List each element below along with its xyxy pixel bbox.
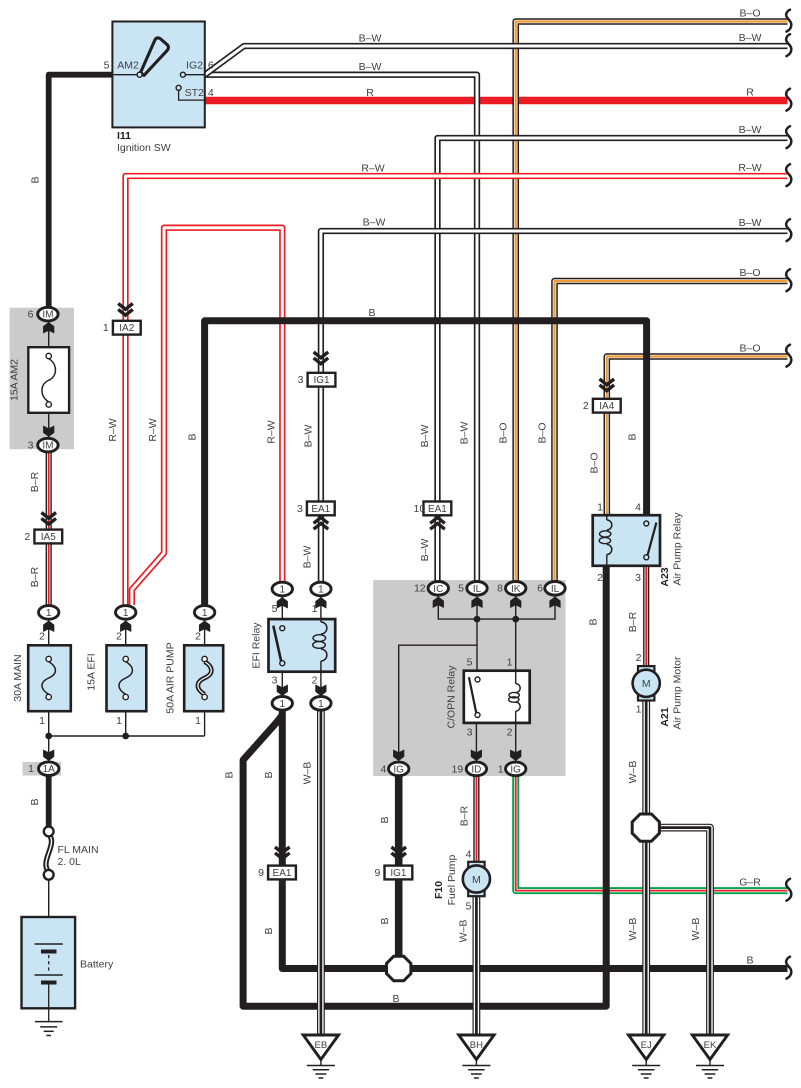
wire B-W from IG2 lower, corner down to 5 IL <box>205 75 477 583</box>
svg-text:Air Pump Motor: Air Pump Motor <box>672 656 684 729</box>
arrow into 19 ID <box>471 750 482 762</box>
wire thin fuse bus <box>48 619 50 646</box>
svg-text:F10: F10 <box>433 881 445 899</box>
fuse 15A AM2 <box>9 347 70 413</box>
ground battery <box>35 1008 63 1035</box>
svg-text:B–O: B–O <box>589 452 601 473</box>
svg-text:B–O: B–O <box>739 7 760 19</box>
wire thin fuse3 top <box>204 619 206 646</box>
svg-text:IG1: IG1 <box>390 868 407 879</box>
connector 3 IG1 <box>298 373 336 387</box>
wire continuation mark y=176 <box>786 164 791 186</box>
wire thin C/OPN pin5 feed <box>476 619 478 671</box>
arrow double into 10 EA1 <box>430 518 445 524</box>
arrow into 8 IK <box>510 597 521 609</box>
svg-text:G–R: G–R <box>739 876 761 888</box>
svg-text:IL: IL <box>551 584 560 595</box>
svg-text:BH: BH <box>470 1040 483 1051</box>
arrow into 5 IL <box>471 597 482 609</box>
wire W-B from junction to EJ ground <box>642 841 650 1035</box>
svg-text:1: 1 <box>39 715 45 727</box>
connector 9 EA1 <box>258 866 296 880</box>
svg-text:2: 2 <box>39 631 45 643</box>
svg-text:B–W: B–W <box>359 33 382 45</box>
svg-text:EB: EB <box>315 1040 328 1051</box>
wire B thick from 1A to fusible link <box>46 775 52 827</box>
wire thin fuse3 bottom <box>204 711 206 736</box>
svg-text:EA1: EA1 <box>428 504 447 515</box>
wire B from ignition AM2 down to 6 IM <box>49 75 113 308</box>
wire W-B from air pump motor to junction <box>642 700 650 814</box>
arrow into fuse 50A AIR PUMP <box>199 621 210 633</box>
wire thin ECM IL lane <box>476 596 478 619</box>
svg-text:B–W: B–W <box>459 422 471 445</box>
svg-text:B–W: B–W <box>739 217 762 229</box>
svg-text:IK: IK <box>511 584 521 595</box>
svg-text:1: 1 <box>123 608 129 619</box>
svg-text:IL: IL <box>473 584 482 595</box>
arrow into 4 IG <box>393 750 404 762</box>
svg-text:ID: ID <box>471 764 481 775</box>
svg-text:10: 10 <box>414 503 426 515</box>
arrow into 3 IM <box>43 426 54 438</box>
wire thin fuse bottoms to bus <box>48 711 50 762</box>
node 19 ID <box>452 762 487 776</box>
svg-text:4: 4 <box>466 849 472 861</box>
svg-text:2: 2 <box>24 531 30 543</box>
arrow double into 3 EA1 <box>314 518 329 524</box>
junction dot fuse bus 1 <box>45 733 52 740</box>
svg-text:12: 12 <box>414 583 426 595</box>
node 4 IG <box>380 762 408 776</box>
svg-text:R–W: R–W <box>147 418 159 441</box>
arrow double into IA2 <box>118 304 133 310</box>
junction dot fuse bus 2 <box>122 733 129 740</box>
svg-text:2: 2 <box>583 400 589 412</box>
svg-text:IG1: IG1 <box>313 375 330 386</box>
svg-text:1: 1 <box>636 704 642 716</box>
svg-text:4: 4 <box>208 87 214 99</box>
svg-text:1: 1 <box>597 502 603 514</box>
fuse 50A AIR PUMP <box>165 642 224 713</box>
wire thin ECM IK lane <box>515 596 517 619</box>
svg-text:5: 5 <box>272 603 278 615</box>
svg-text:2. 0L: 2. 0L <box>58 856 82 868</box>
wire continuation mark y=231 <box>786 219 791 241</box>
svg-text:Ignition SW: Ignition SW <box>117 142 171 154</box>
svg-text:EFI Relay: EFI Relay <box>251 622 263 669</box>
wire B-W right edge row y138 to 10 EA1 / 12 IC <box>438 138 788 583</box>
svg-text:B–R: B–R <box>627 611 639 632</box>
svg-text:4: 4 <box>635 502 641 514</box>
svg-text:B: B <box>627 433 639 440</box>
node EFI relay pin5 feed <box>272 582 292 596</box>
svg-text:B–R: B–R <box>459 805 471 826</box>
svg-text:6: 6 <box>28 309 34 321</box>
wire B thick branch diagonal to bottom bus and air pump relay pin2 <box>243 566 606 1006</box>
svg-text:1: 1 <box>318 585 324 596</box>
node 3 IM <box>28 438 59 452</box>
wire thin fuse2 bottom <box>125 711 127 736</box>
svg-text:B: B <box>379 917 391 924</box>
svg-text:3: 3 <box>298 374 304 386</box>
svg-text:IG: IG <box>393 764 404 775</box>
node 8 IK <box>497 582 526 596</box>
relay C/OPN Relay <box>446 657 530 739</box>
svg-text:1: 1 <box>280 699 286 710</box>
svg-text:R–W: R–W <box>738 162 761 174</box>
node fuse2 top <box>116 606 136 620</box>
svg-text:2: 2 <box>116 631 122 643</box>
svg-text:IM: IM <box>42 310 53 321</box>
svg-text:B–R: B–R <box>29 471 41 492</box>
wire continuation mark y=968.5 <box>786 957 791 979</box>
svg-text:B–W: B–W <box>739 124 762 136</box>
node EFI relay pin1 feed <box>311 582 331 596</box>
fuse 30A MAIN <box>12 645 71 711</box>
motor air pump motor A21 <box>633 666 660 700</box>
wire thin fusible link to battery <box>48 879 50 917</box>
ignition contact IG2 <box>180 72 185 77</box>
arrow double into 9 IG1 <box>391 847 406 853</box>
svg-text:B: B <box>392 993 399 1005</box>
svg-text:B–W: B–W <box>302 546 314 569</box>
svg-text:3: 3 <box>635 572 641 584</box>
svg-text:2: 2 <box>507 727 513 739</box>
svg-text:Air Pump Relay: Air Pump Relay <box>672 512 684 586</box>
svg-text:4: 4 <box>380 763 386 775</box>
svg-text:IG2: IG2 <box>186 59 203 71</box>
ignition key lever <box>141 38 169 76</box>
svg-text:A23: A23 <box>659 567 671 586</box>
svg-text:3: 3 <box>28 440 34 452</box>
svg-text:15A EFI: 15A EFI <box>86 653 98 690</box>
arrow out EFI pin2 <box>315 685 326 697</box>
svg-text:B: B <box>746 954 753 966</box>
svg-text:IM: IM <box>42 441 53 452</box>
svg-text:1: 1 <box>202 608 208 619</box>
connector 9 IG1 <box>374 866 412 880</box>
ground EB <box>303 1035 338 1078</box>
svg-text:EJ: EJ <box>641 1040 652 1051</box>
arrow into EFI oval pin1 <box>315 597 326 609</box>
svg-text:B–O: B–O <box>739 267 760 279</box>
arrow double into IA5 <box>41 513 56 519</box>
connector 3 EA1 <box>297 502 335 516</box>
svg-text:9: 9 <box>258 867 264 879</box>
wire continuation mark y=138 <box>786 126 791 148</box>
wire thin EFI relay pin2 to oval <box>320 672 322 697</box>
svg-text:B: B <box>263 771 275 778</box>
wire thin 6 IM to fuse AM2 <box>48 320 50 347</box>
wire B-R from 19 ID to fuel pump <box>473 775 479 862</box>
svg-text:2: 2 <box>636 652 642 664</box>
svg-text:R–W: R–W <box>107 418 119 441</box>
battery <box>22 917 115 1008</box>
wire B-R air pump relay pin3 to motor <box>643 566 649 667</box>
ground EK <box>692 1035 727 1078</box>
svg-text:5: 5 <box>458 583 464 595</box>
wire R-W loop to IA2 and right edge <box>126 176 788 606</box>
svg-text:1: 1 <box>498 763 504 775</box>
svg-text:B–O: B–O <box>739 342 760 354</box>
wire thin C/OPN pin1 feed <box>515 619 517 671</box>
svg-text:6: 6 <box>208 59 214 71</box>
svg-text:B–O: B–O <box>537 422 549 443</box>
svg-text:C/OPN Relay: C/OPN Relay <box>446 665 458 729</box>
wire R-W inner loop to EFI relay <box>132 228 282 605</box>
wire thin EFI relay oval to pin1 <box>320 595 322 619</box>
svg-text:B: B <box>224 771 236 778</box>
wire G-R from 1 IG to right edge <box>516 775 788 891</box>
ignition contact AM2 <box>137 72 142 77</box>
svg-text:B–W: B–W <box>419 539 431 562</box>
arrow out EFI pin3 <box>277 685 288 697</box>
svg-text:EK: EK <box>704 1040 717 1051</box>
svg-text:50A AIR PUMP: 50A AIR PUMP <box>165 642 177 713</box>
svg-text:3: 3 <box>297 503 303 515</box>
wire B-O row y281 to 6 IL <box>555 281 788 583</box>
wire continuation mark y=890.6 <box>786 879 791 901</box>
svg-text:R–W: R–W <box>266 420 278 443</box>
arrow double into 2 IA4 <box>600 379 615 385</box>
wire B thick EFI relay pin3 to EA1 and bus right <box>282 710 787 969</box>
svg-text:Battery: Battery <box>80 959 114 971</box>
svg-text:15A AM2: 15A AM2 <box>9 359 21 401</box>
svg-text:B–O: B–O <box>498 422 510 443</box>
node EFI relay pin3 out <box>272 697 292 711</box>
wire continuation mark y=21.5 <box>786 10 791 32</box>
wire thin C/OPN pin3 to 19 ID <box>475 723 477 762</box>
svg-text:2: 2 <box>312 675 318 687</box>
svg-text:5: 5 <box>467 657 473 669</box>
wire thin C/OPN pin2 to 1 IG <box>515 723 517 762</box>
svg-text:W–B: W–B <box>690 918 702 941</box>
svg-text:EA1: EA1 <box>273 868 292 879</box>
wire R from ST2 to right edge <box>205 97 788 105</box>
wire thin battery internal <box>48 917 50 944</box>
junction dot ECM 5 IL <box>474 616 481 623</box>
node 1 IG <box>498 762 526 776</box>
node 1 1A <box>28 762 59 776</box>
ECM block background <box>373 580 565 776</box>
node fuse3 top <box>194 606 214 620</box>
relay A23 Air Pump Relay <box>593 502 684 587</box>
svg-text:IG: IG <box>510 764 521 775</box>
svg-text:2: 2 <box>195 631 201 643</box>
svg-text:M: M <box>642 678 651 690</box>
wire B thick bus from fuse 50A to air pump relay pin4 <box>205 321 647 612</box>
svg-text:W–B: W–B <box>627 918 639 941</box>
svg-text:B: B <box>263 927 275 934</box>
wire continuation mark y=356.5 <box>786 345 791 367</box>
motor fuel pump F10 <box>463 862 490 896</box>
wire thin ECM branch to 4 IG <box>399 645 477 762</box>
wire W-B from junction to EK ground <box>659 828 710 1035</box>
node 6 IL <box>537 582 565 596</box>
svg-text:B: B <box>368 307 375 319</box>
wire continuation mark y=281 <box>786 269 791 291</box>
svg-text:I11: I11 <box>117 130 131 142</box>
junction dot ECM 8 IK <box>512 616 519 623</box>
fuse block 15A AM2 background <box>10 308 74 450</box>
svg-text:ST2: ST2 <box>185 87 204 99</box>
wire B-W from IG2 upper to right edge <box>205 46 788 75</box>
connector 1 IA2 <box>103 321 141 335</box>
svg-text:W–B: W–B <box>458 920 470 943</box>
svg-text:8: 8 <box>497 583 503 595</box>
node EFI relay pin2 out <box>311 697 331 711</box>
svg-text:1: 1 <box>318 699 324 710</box>
wire thin EFI relay pin3 to oval <box>281 672 283 697</box>
svg-text:IA2: IA2 <box>119 323 134 334</box>
arrow into 1A <box>43 750 54 762</box>
connector 1A highlight band <box>23 762 62 776</box>
ignition contact ST2 <box>176 85 181 90</box>
arrow into fuse 30A MAIN <box>43 621 54 633</box>
wire W-B from EFI relay pin2 to EB ground <box>317 710 325 1036</box>
svg-text:B: B <box>379 816 391 823</box>
node 5 IL <box>458 582 487 596</box>
arrow into EFI oval pin5 <box>277 597 288 609</box>
svg-text:6: 6 <box>537 583 543 595</box>
ignition switch I11 <box>104 22 214 155</box>
fusible link FL MAIN 2.0L <box>44 827 99 880</box>
svg-text:AM2: AM2 <box>117 59 139 71</box>
arrow into 6 IL <box>549 597 560 609</box>
svg-text:B–W: B–W <box>739 32 762 44</box>
node fuse1 top <box>39 606 59 620</box>
svg-text:IC: IC <box>433 584 443 595</box>
svg-text:1: 1 <box>312 603 318 615</box>
svg-text:B: B <box>588 618 600 625</box>
wire W-B from fuel pump to BH ground <box>472 896 480 1035</box>
svg-text:19: 19 <box>452 763 464 775</box>
connector 10 EA1 <box>414 502 452 516</box>
arrow double into 3 IG1 <box>314 352 329 358</box>
svg-text:1: 1 <box>103 322 109 334</box>
wire thin fuse output bus <box>49 735 205 737</box>
svg-text:3: 3 <box>272 675 278 687</box>
connector 2 IA4 <box>583 399 621 413</box>
ground EJ <box>629 1035 664 1078</box>
svg-text:R: R <box>366 87 374 99</box>
svg-text:1: 1 <box>116 715 122 727</box>
wire thin ECM connector line <box>438 596 555 619</box>
junction node air pump motor ground <box>632 814 659 841</box>
svg-text:FL MAIN: FL MAIN <box>58 844 99 856</box>
svg-text:B–W: B–W <box>359 61 382 73</box>
relay EFI Relay <box>251 603 336 687</box>
svg-text:M: M <box>472 874 481 886</box>
svg-text:R: R <box>746 86 754 98</box>
wire B-O top row to 8 IK <box>516 22 788 583</box>
svg-text:W–B: W–B <box>302 762 314 785</box>
wire thin fuse2 top <box>125 619 127 646</box>
wire thin EFI relay oval to pin5 <box>281 595 283 619</box>
svg-text:1: 1 <box>280 585 286 596</box>
connector 2 IA5 <box>24 530 62 544</box>
svg-text:B: B <box>187 433 199 440</box>
svg-text:B: B <box>30 176 42 183</box>
svg-text:9: 9 <box>374 867 380 879</box>
svg-text:1: 1 <box>28 763 34 775</box>
wire continuation mark y=100.5 <box>786 89 791 111</box>
svg-text:B–W: B–W <box>363 217 386 229</box>
arrow into fuse AM2 <box>43 322 54 334</box>
node 6 IM <box>28 307 59 321</box>
wire continuation mark y=46 <box>786 34 791 56</box>
svg-text:2: 2 <box>597 572 603 584</box>
node 12 IC <box>414 582 449 596</box>
svg-text:R–W: R–W <box>361 163 384 175</box>
junction node fuel/battery ground bus <box>387 956 411 980</box>
ground BH <box>459 1035 494 1078</box>
svg-text:1A: 1A <box>43 764 56 775</box>
arrow into 12 IC <box>433 597 444 609</box>
svg-text:IA5: IA5 <box>41 532 56 543</box>
svg-text:1: 1 <box>507 657 513 669</box>
svg-text:B–R: B–R <box>29 566 41 587</box>
svg-text:B–W: B–W <box>419 425 431 448</box>
wire B thick from 4 IG through IG1 to junction <box>395 775 403 961</box>
wire B-O branch to IA4 and air pump relay pin1 <box>607 357 788 516</box>
fuse 15A EFI <box>86 645 147 711</box>
svg-text:EA1: EA1 <box>311 504 330 515</box>
svg-text:B–W: B–W <box>303 425 315 448</box>
svg-text:IA4: IA4 <box>599 401 614 412</box>
svg-text:5: 5 <box>104 59 110 71</box>
arrow into 1 IG <box>510 750 521 762</box>
svg-text:W–B: W–B <box>627 761 639 784</box>
svg-text:3: 3 <box>467 727 473 739</box>
wire B-W loop to IG1/EA1/EFI relay and right edge <box>321 231 788 583</box>
arrow double into 9 EA1 <box>275 847 290 853</box>
svg-text:1: 1 <box>195 715 201 727</box>
wire B-R from 3 IM to fuse oval <box>46 452 52 606</box>
svg-text:5: 5 <box>466 901 472 913</box>
svg-text:Fuel Pump: Fuel Pump <box>446 854 458 905</box>
svg-text:1: 1 <box>46 608 52 619</box>
svg-text:30A MAIN: 30A MAIN <box>12 654 24 701</box>
arrow into fuse 15A EFI <box>120 621 131 633</box>
svg-text:B: B <box>29 798 41 805</box>
svg-text:A21: A21 <box>659 707 671 726</box>
wire thin fuse AM2 to 3 IM <box>48 413 50 439</box>
